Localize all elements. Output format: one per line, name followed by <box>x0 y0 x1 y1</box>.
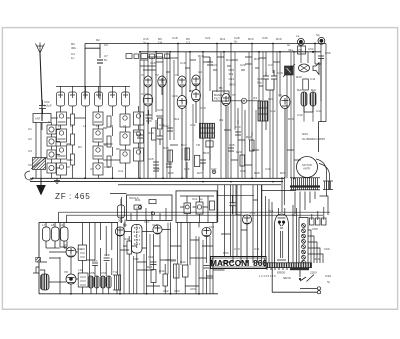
label MARCONI 866 <box>210 257 267 269</box>
svg-text:C9: C9 <box>90 167 94 171</box>
wire right boundary step <box>319 122 326 152</box>
svg-text:FILT: FILT <box>214 97 220 101</box>
svg-text:V4: V4 <box>198 70 202 74</box>
svg-text:1n: 1n <box>71 56 75 60</box>
svg-text:C11: C11 <box>118 169 124 173</box>
upper-left IF cluster <box>56 86 130 178</box>
svg-text:1M: 1M <box>158 41 163 45</box>
wire rect rails right <box>293 205 297 263</box>
box osc coil2 <box>78 273 88 287</box>
capacitor C23b <box>157 130 163 145</box>
svg-text:R25: R25 <box>288 117 294 121</box>
svg-text:C71: C71 <box>254 247 260 251</box>
svg-text:IF1: IF1 <box>253 96 258 100</box>
capacitor bank C89a <box>310 218 327 225</box>
svg-text:0,5A: 0,5A <box>325 274 331 278</box>
wire antenna mast <box>40 53 42 121</box>
svg-text:R26: R26 <box>168 171 174 175</box>
terminal small1 <box>317 291 320 294</box>
svg-text:NETZ: NETZ <box>283 276 291 280</box>
resistor R5 <box>107 136 111 147</box>
svg-text:5n: 5n <box>104 58 108 62</box>
capacitor lower C70 <box>92 263 98 266</box>
svg-text:R19: R19 <box>276 37 282 41</box>
wire top drops <box>61 86 126 92</box>
svg-text:30μ: 30μ <box>118 219 123 223</box>
svg-text:C64: C64 <box>308 47 314 51</box>
svg-text:R15: R15 <box>254 57 260 61</box>
svg-text:R44: R44 <box>180 260 186 264</box>
pilot lamp oval <box>299 64 310 72</box>
arrow to chassis <box>36 178 46 195</box>
svg-text:ANTR.: ANTR. <box>303 167 311 171</box>
svg-text:V5: V5 <box>232 93 236 97</box>
box aerial input <box>33 114 51 123</box>
capacitor cluster C40s <box>259 70 277 90</box>
svg-text:C33: C33 <box>235 125 241 129</box>
svg-text:R8: R8 <box>189 89 193 93</box>
tube V14 <box>222 94 231 179</box>
svg-text:C32: C32 <box>190 123 196 127</box>
mid bus 1 <box>30 177 284 179</box>
dial window box <box>127 195 173 220</box>
svg-text:C45: C45 <box>154 167 160 171</box>
wire below IF block <box>203 138 210 178</box>
svg-text:Tr2: Tr2 <box>113 270 118 274</box>
svg-text:43a: 43a <box>288 48 293 52</box>
svg-text:R14: R14 <box>148 131 154 135</box>
terminal test point <box>212 170 216 174</box>
capacitor C80 <box>204 266 210 269</box>
svg-text:L3: L3 <box>83 124 87 128</box>
svg-text:C10: C10 <box>104 165 110 169</box>
psu box edge <box>262 185 296 263</box>
svg-text:R60: R60 <box>314 257 320 261</box>
svg-text:C19: C19 <box>180 61 186 65</box>
svg-text:V11: V11 <box>152 223 157 227</box>
svg-text:L9: L9 <box>60 223 64 227</box>
wire verticals upper mid <box>140 44 326 179</box>
svg-text:R4: R4 <box>104 143 108 147</box>
svg-text:L8: L8 <box>51 223 55 227</box>
IF transformer stack C <box>120 114 130 127</box>
svg-text:R17: R17 <box>181 143 187 147</box>
resistor R42 <box>163 274 168 286</box>
wires vertical upper-left <box>60 106 62 178</box>
svg-text:C36: C36 <box>262 36 268 40</box>
svg-text:C35: C35 <box>229 143 235 147</box>
hatched can pair A <box>89 276 100 288</box>
svg-text:R13: R13 <box>248 37 254 41</box>
rectifier tube V16 <box>275 208 289 263</box>
wire feed lines top of lower box <box>59 212 331 222</box>
tiny labels top area <box>96 38 331 55</box>
wire ganged line <box>42 118 58 130</box>
resistor R41 <box>151 270 156 283</box>
svg-text:R50: R50 <box>223 251 229 255</box>
tube can V5 <box>109 92 117 106</box>
tube V17 <box>66 247 76 257</box>
svg-text:220V: 220V <box>310 271 317 275</box>
svg-text:C24: C24 <box>133 130 139 134</box>
terminal strip dark <box>265 263 312 270</box>
svg-text:Osz. Sp: Osz. Sp <box>192 197 203 201</box>
top bus B <box>140 51 321 53</box>
label NSV <box>302 132 326 141</box>
svg-text:C2: C2 <box>28 137 32 141</box>
svg-text:C58: C58 <box>104 253 110 257</box>
wire horiz links mid <box>140 57 252 66</box>
resistor R40 <box>127 241 132 254</box>
svg-text:C8: C8 <box>66 165 70 169</box>
resistor R22 <box>250 140 255 151</box>
svg-text:C5: C5 <box>28 163 32 167</box>
svg-text:T: T <box>48 120 50 124</box>
svg-text:C17: C17 <box>141 92 147 96</box>
wire rail x100 <box>99 44 101 100</box>
resistor R14 <box>152 128 157 140</box>
svg-text:R43: R43 <box>170 259 176 263</box>
svg-text:5n: 5n <box>234 40 238 44</box>
svg-text:C55: C55 <box>89 271 95 275</box>
resistor R2b <box>71 134 75 145</box>
svg-text:C44: C44 <box>316 109 322 113</box>
volume pot dark <box>283 64 295 77</box>
wire x321 extend <box>320 59 322 122</box>
choke box Dr <box>298 46 306 54</box>
wire rail x85 <box>85 44 100 100</box>
antenna <box>36 43 45 54</box>
svg-text:C57: C57 <box>92 259 98 263</box>
wire tube V14 to grid <box>231 100 262 102</box>
svg-text:R7: R7 <box>165 56 169 60</box>
wire nested L runs <box>308 196 328 263</box>
wires below comb <box>295 192 315 218</box>
svg-text:S1: S1 <box>292 213 296 217</box>
capacitor C25 <box>153 162 159 165</box>
capacitor C27b <box>166 164 172 167</box>
svg-text:V6: V6 <box>278 93 282 97</box>
svg-text:C41: C41 <box>310 77 316 81</box>
svg-text:0,3: 0,3 <box>186 41 191 45</box>
ground <box>54 178 60 183</box>
wire drops right-low <box>233 185 241 263</box>
wires lower-left verticals <box>33 223 117 294</box>
label bottom right <box>277 271 331 285</box>
IF transformer dark block <box>200 123 215 138</box>
svg-text:R40: R40 <box>124 237 130 241</box>
box BFO coupler <box>206 141 213 147</box>
svg-text:C48: C48 <box>240 169 246 173</box>
svg-text:La: La <box>296 34 300 38</box>
tube can V3 <box>82 92 90 106</box>
capacitor C23a <box>146 110 152 124</box>
box filter <box>213 91 230 101</box>
svg-text:C64: C64 <box>190 287 196 291</box>
coil loop left <box>25 171 33 180</box>
svg-text:R20: R20 <box>146 119 152 123</box>
svg-text:L1: L1 <box>58 124 62 128</box>
tube can V4 <box>95 92 103 106</box>
terminal P2 <box>318 37 325 44</box>
capacitor C7 <box>97 60 103 63</box>
svg-text:R1: R1 <box>66 143 70 147</box>
box osc coil <box>78 245 86 260</box>
resistor R15b <box>158 118 163 129</box>
svg-text:C22: C22 <box>163 124 169 128</box>
capacitor C81 <box>151 262 157 265</box>
svg-text:C70: C70 <box>234 247 240 251</box>
svg-text:C42: C42 <box>270 109 276 113</box>
label channel R25 <box>229 68 237 87</box>
label dial <box>118 198 142 223</box>
resistor R30 <box>303 79 309 90</box>
svg-text:C89: C89 <box>312 227 318 231</box>
svg-text:L5: L5 <box>110 124 114 128</box>
svg-text:C34: C34 <box>229 77 235 81</box>
tube V15 <box>280 96 290 179</box>
box R18 <box>195 155 200 166</box>
svg-text:R28: R28 <box>254 171 260 175</box>
capacitor C70 <box>230 195 236 214</box>
hatched can pair B <box>101 276 112 288</box>
svg-text:50p: 50p <box>257 81 262 85</box>
resistor R4 <box>107 116 111 127</box>
wire lower-left horizontals <box>40 247 95 282</box>
svg-text:R27: R27 <box>197 171 203 175</box>
svg-text:C49: C49 <box>265 167 271 171</box>
svg-text:C47: C47 <box>211 167 217 171</box>
wire left rail <box>36 123 41 179</box>
svg-text:R11: R11 <box>220 37 226 41</box>
svg-text:C26: C26 <box>157 108 163 112</box>
tube V7 <box>144 76 152 96</box>
output tube V20 <box>132 225 143 254</box>
svg-text:Sp: Sp <box>316 33 320 37</box>
svg-text:V9: V9 <box>123 223 127 227</box>
svg-text:ERDE: ERDE <box>277 271 285 275</box>
capacitor C52 <box>39 100 46 114</box>
svg-text:V7: V7 <box>64 243 68 247</box>
lower chassis box <box>39 223 218 294</box>
wires lower-middle verticals <box>120 185 262 294</box>
wire extra verticals lower <box>124 223 210 294</box>
tube V13 <box>192 90 201 124</box>
svg-text:R2: R2 <box>96 38 100 42</box>
svg-text:R42: R42 <box>159 269 165 273</box>
svg-text:MOTOR: MOTOR <box>302 163 312 167</box>
svg-text:30k: 30k <box>71 46 76 50</box>
tube V8 <box>158 76 166 95</box>
svg-text:ZF : 465: ZF : 465 <box>55 192 91 201</box>
mid bus 2 <box>30 181 283 183</box>
svg-text:SKALA: SKALA <box>129 196 139 200</box>
top bus A <box>85 43 326 45</box>
trimmer wheel <box>241 98 246 103</box>
tuning capacitor hatched <box>31 157 47 170</box>
svg-text:C1: C1 <box>28 127 32 131</box>
tube V19 <box>115 227 124 236</box>
resistor R23 <box>240 155 245 166</box>
svg-text:IF2: IF2 <box>219 118 224 122</box>
svg-text:R10: R10 <box>198 54 204 58</box>
svg-text:C39: C39 <box>277 71 283 75</box>
svg-text:C51: C51 <box>136 207 142 211</box>
svg-text:ANT: ANT <box>35 117 41 121</box>
capacitor C60 <box>318 56 324 59</box>
resistor R5b <box>107 156 111 167</box>
dial inner components <box>131 200 166 221</box>
mid bus 3 <box>118 184 281 186</box>
tube V21 <box>153 225 162 234</box>
svg-text:C56: C56 <box>101 271 107 275</box>
svg-text:Gr: Gr <box>287 43 290 47</box>
capacitor top stubs <box>207 57 213 65</box>
tube V18 <box>66 274 76 284</box>
wire feed right of osc box <box>217 194 254 196</box>
small hatch block left <box>36 257 41 262</box>
tube V11 large <box>143 94 153 178</box>
capacitor C33 <box>235 132 241 135</box>
tube can V2 <box>69 92 77 106</box>
tiny labels upper band <box>133 33 322 175</box>
svg-text:L4: L4 <box>96 124 100 128</box>
svg-text:C20: C20 <box>172 94 178 98</box>
svg-text:L6: L6 <box>123 124 127 128</box>
svg-text:V13: V13 <box>250 211 256 215</box>
wire links lower extra <box>120 200 258 286</box>
band switch boxes <box>126 54 170 59</box>
osc internals <box>180 196 215 222</box>
tube V10 <box>192 75 200 90</box>
svg-text:C63: C63 <box>174 289 180 293</box>
svg-text:R29: R29 <box>280 171 286 175</box>
terminal small2 <box>317 287 320 290</box>
svg-text:C30: C30 <box>200 106 206 110</box>
resistor R44 <box>183 265 189 277</box>
terminal P1 <box>298 38 305 45</box>
svg-text:BFO: BFO <box>203 151 210 155</box>
transformer comb <box>290 178 320 190</box>
capacitor C26b <box>153 168 159 171</box>
tube can V6 <box>122 92 130 106</box>
capacitor lower C71 <box>104 258 110 261</box>
wire osc links <box>182 148 187 178</box>
wire extra verticals upper <box>144 52 291 178</box>
wire lower-mid horizontals <box>123 230 225 287</box>
svg-text:L10: L10 <box>78 268 83 272</box>
tiny labels left band <box>28 100 127 173</box>
tube V22 <box>202 227 211 236</box>
svg-text:L2: L2 <box>70 124 74 128</box>
svg-text:Si: Si <box>327 280 330 284</box>
IF transformer stack D <box>134 106 144 178</box>
svg-text:8μF: 8μF <box>297 88 302 92</box>
svg-text:NSV: NSV <box>302 132 308 136</box>
svg-text:V3: V3 <box>175 73 179 77</box>
svg-text:R30: R30 <box>296 75 302 79</box>
svg-text:30k: 30k <box>229 72 234 76</box>
svg-text:C37: C37 <box>268 63 274 67</box>
svg-text:C25: C25 <box>148 157 154 161</box>
coil can hatched lower-left <box>41 274 50 290</box>
capacitor C35 <box>228 148 234 151</box>
tube V9 <box>178 76 186 96</box>
IF transformer stack A <box>57 112 67 125</box>
svg-text:V14: V14 <box>268 209 274 213</box>
svg-text:V10: V10 <box>144 220 150 224</box>
label cluster top-left <box>71 42 108 62</box>
tube V12 large <box>177 96 187 179</box>
tube can V1 <box>57 92 65 106</box>
resistor R2a <box>71 114 75 125</box>
connector strip <box>299 217 308 265</box>
svg-text:L7: L7 <box>42 223 46 227</box>
svg-text:C23: C23 <box>212 63 218 67</box>
wire rect rails left <box>266 196 273 263</box>
motor M <box>297 157 318 178</box>
resistor R16 <box>168 150 173 162</box>
svg-text:C18: C18 <box>172 36 178 40</box>
svg-text:C60: C60 <box>133 257 139 261</box>
svg-text:R3: R3 <box>78 145 82 149</box>
svg-text:V1: V1 <box>141 73 145 77</box>
svg-text:C43: C43 <box>297 113 303 117</box>
electrolytic C64 can <box>118 205 125 218</box>
svg-text:C61: C61 <box>148 255 154 259</box>
wire top right drop <box>315 59 321 65</box>
svg-text:V2: V2 <box>155 73 159 77</box>
svg-text:R22: R22 <box>246 135 252 139</box>
svg-text:C6: C6 <box>104 43 108 47</box>
wire bottom right L1 <box>272 268 317 292</box>
svg-text:MARCONI 866: MARCONI 866 <box>210 259 267 268</box>
svg-text:R16: R16 <box>163 146 169 150</box>
svg-text:R12: R12 <box>226 58 232 62</box>
svg-text:8μF: 8μF <box>311 88 316 92</box>
coil cans trio <box>43 223 69 248</box>
switch dot <box>299 278 301 280</box>
svg-text:BF: BF <box>219 86 223 90</box>
comb C89 <box>323 181 333 190</box>
svg-text:V8: V8 <box>64 270 68 274</box>
IF transformer stack B <box>93 112 103 125</box>
capacitor C24 <box>137 135 143 138</box>
svg-text:C29: C29 <box>240 63 246 67</box>
wire bottom right L2 <box>300 270 317 288</box>
svg-text:C3: C3 <box>28 149 32 153</box>
svg-text:C21: C21 <box>205 36 211 40</box>
svg-text:C62: C62 <box>163 289 169 293</box>
svg-text:R23: R23 <box>236 150 242 154</box>
svg-text:SL.BRMHO 4897: SL.BRMHO 4897 <box>302 137 326 141</box>
transformer block lower <box>113 275 121 290</box>
svg-text:Osz: Osz <box>77 247 83 251</box>
svg-text:1,5μF: 1,5μF <box>44 104 52 108</box>
svg-text:R41: R41 <box>147 265 153 269</box>
resistor R17 <box>185 148 190 160</box>
svg-text:R24: R24 <box>268 97 274 101</box>
resistor R3 <box>71 154 75 165</box>
wire left of dial box <box>110 194 127 224</box>
wire links <box>67 118 121 160</box>
wire links upper band extra <box>140 57 313 165</box>
tiny labels lower band <box>42 196 330 293</box>
svg-text:R5: R5 <box>116 147 120 151</box>
capacitor C22 <box>167 128 173 131</box>
svg-text:V12: V12 <box>209 225 215 229</box>
capacitor C31 <box>200 160 206 170</box>
